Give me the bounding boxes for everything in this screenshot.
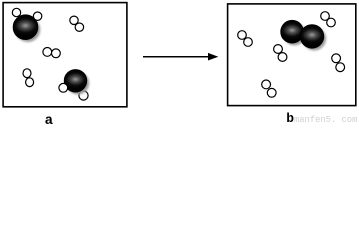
B2 molecule top-right of box b xyxy=(321,12,336,27)
molecule AB2 top-left of box a: atom B small white xyxy=(12,8,20,16)
B2 molecule middle of box a xyxy=(43,48,60,58)
svg-text:manfen5. com: manfen5. com xyxy=(294,115,357,125)
label a xyxy=(45,113,54,129)
B2 molecule top-right of box a xyxy=(70,16,84,31)
container box a xyxy=(3,3,127,107)
B2 molecule right of box b xyxy=(332,54,345,72)
B2 molecule bottom of box b xyxy=(262,80,276,97)
watermark manfen5.com xyxy=(294,115,357,125)
molecule AB2 bottom-right of box a: atom A shadow xyxy=(67,72,90,95)
A2 molecule of box b: right dark sphere xyxy=(300,25,324,49)
A2 molecule of box b: left atom shadow xyxy=(283,23,306,46)
A2 molecule of box b: left dark sphere xyxy=(281,20,304,43)
label b xyxy=(286,111,294,126)
reaction arrow xyxy=(143,53,218,61)
A2 molecule of box b: right atom shadow xyxy=(303,27,327,51)
molecule AB2 top-left of box a: atom B small white on top xyxy=(33,12,41,20)
B2 molecule left of box b xyxy=(238,31,253,47)
B2 molecule center of box b xyxy=(274,45,287,62)
molecule AB2 bottom-right of box a: atom B on top xyxy=(59,83,68,92)
molecule AB2 top-left of box a: atom A large dark sphere xyxy=(13,15,38,40)
molecule AB2 top-left of box a: atom A shadow xyxy=(16,17,41,42)
svg-text:a: a xyxy=(45,113,54,126)
B2 molecule bottom-left of box a xyxy=(23,69,34,87)
molecule AB2 bottom-right of box a: atom B behind sphere xyxy=(79,91,88,100)
molecule AB2 bottom-right of box a: atom A large dark sphere xyxy=(64,70,87,93)
container box b xyxy=(228,4,356,106)
